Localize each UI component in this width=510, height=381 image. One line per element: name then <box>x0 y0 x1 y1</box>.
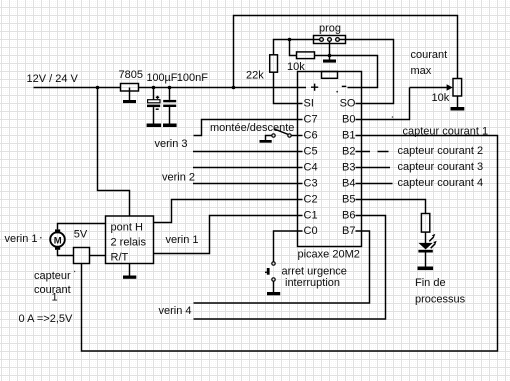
capacitor C2 100nF <box>163 88 176 124</box>
svg-text:capteur courant 1: capteur courant 1 <box>403 126 489 138</box>
node capteur courant 4 label <box>398 177 484 189</box>
node junction rail to top net <box>232 86 236 90</box>
svg-text:picaxe 20M2: picaxe 20M2 <box>298 249 360 261</box>
ground switch montée/descente <box>260 140 272 143</box>
ground pont H <box>123 264 136 279</box>
node pin - label <box>336 86 346 92</box>
ground prog pin2 <box>323 42 336 63</box>
svg-text:B2: B2 <box>342 146 355 158</box>
relay pont H 2 relais R/T <box>106 216 154 264</box>
node arret urgence label <box>282 266 347 290</box>
svg-text:capteur courant 2: capteur courant 2 <box>398 145 484 157</box>
svg-text:verin 2: verin 2 <box>162 172 195 184</box>
wire B3 <box>356 167 391 169</box>
svg-text:100nF: 100nF <box>177 72 208 84</box>
node verin 1 label mid <box>166 234 199 246</box>
wire B2 <box>356 151 389 153</box>
svg-text:capteur courant 3: capteur courant 3 <box>398 161 484 173</box>
svg-text:C3: C3 <box>304 178 318 190</box>
svg-text:Fin de: Fin de <box>415 277 446 289</box>
node pin labels left column <box>304 98 318 238</box>
svg-text:B0: B0 <box>342 114 355 126</box>
wire C2 to pont H upper <box>154 200 303 223</box>
svg-text:B5: B5 <box>342 194 355 206</box>
transducer capteur courant 1 box <box>74 248 90 264</box>
node capteur courant 2 label <box>398 145 484 157</box>
diode LED fin de processus <box>418 232 436 266</box>
wire prog pin1 to 22k <box>274 40 320 55</box>
node verin 1 label left <box>5 233 42 245</box>
svg-text:10k: 10k <box>432 92 450 104</box>
svg-text:verin 3: verin 3 <box>155 138 188 150</box>
node courant max label <box>411 49 448 77</box>
wire B1 capteur courant 1 loop <box>82 136 498 352</box>
node pin + label <box>311 84 318 91</box>
capacitor C2 100nF label <box>177 72 208 84</box>
svg-text:B7: B7 <box>342 225 355 237</box>
wire junction down to 10k left <box>290 40 297 56</box>
wire B4 <box>356 183 393 185</box>
wire motor top to pont H <box>58 224 106 230</box>
svg-text:100µF: 100µF <box>147 72 178 84</box>
svg-text:2 relais: 2 relais <box>111 237 147 249</box>
svg-text:verin 1: verin 1 <box>166 234 199 246</box>
wire B5 to LED resistor <box>356 200 426 214</box>
ground regulator 7805 <box>123 88 136 104</box>
node capteur courant 1 label <box>392 116 488 137</box>
svg-text:7805: 7805 <box>119 69 143 81</box>
svg-text:C2: C2 <box>304 194 318 206</box>
svg-text:B6: B6 <box>342 210 355 222</box>
switch arret urgence pushbutton <box>265 262 275 292</box>
svg-text:R/T: R/T <box>111 252 129 264</box>
wire C1 to pont H lower <box>154 216 303 254</box>
svg-text:B4: B4 <box>342 178 355 190</box>
wire C5 <box>193 151 303 153</box>
node junction 10k wire prog pin2 <box>328 54 332 58</box>
wire C3 <box>193 183 303 185</box>
ground capacitor 100nF <box>163 124 177 128</box>
wire wiper to pin B0 <box>356 88 410 120</box>
node Fin de processus label <box>415 277 466 306</box>
svg-text:22k: 22k <box>246 70 264 82</box>
resistor 10k serial <box>287 52 315 73</box>
wire 12/24V rail <box>34 87 307 89</box>
node 12V/24V supply label <box>27 73 79 85</box>
node junction rail to pont H <box>96 86 100 90</box>
ground potentiometer <box>451 96 465 111</box>
motor M verin 1 <box>50 229 65 249</box>
wire motor bottom to capteur <box>58 250 74 256</box>
wire rail down to pont H supply <box>98 88 130 217</box>
wire prog pin3 to SO <box>340 40 394 104</box>
svg-text:C1: C1 <box>304 210 318 222</box>
wire capteur to pont H <box>90 255 106 257</box>
wire B7 verin 4 upper <box>194 231 370 303</box>
svg-text:C7: C7 <box>304 114 318 126</box>
regulator 7805 <box>119 69 143 91</box>
wire 5V rail to potentiometer top <box>234 16 458 88</box>
node verin 2 label <box>162 172 195 184</box>
svg-text:C5: C5 <box>304 146 318 158</box>
ground arret urgence <box>267 292 280 295</box>
wire 10k right to minus pin <box>315 56 378 88</box>
svg-text:arret urgence: arret urgence <box>282 266 347 278</box>
svg-text:C6: C6 <box>304 130 318 142</box>
ground LED <box>418 267 434 271</box>
node verin 3 label <box>155 138 188 150</box>
node capteur courant 1 label left <box>34 270 75 304</box>
wire C4 <box>193 167 303 169</box>
svg-text:courant: courant <box>411 49 448 61</box>
node pin labels right column <box>340 98 356 238</box>
svg-text:interruption: interruption <box>285 277 340 289</box>
op-amp U1 picaxe 20M2 body <box>298 72 362 261</box>
svg-text:B3: B3 <box>342 162 355 174</box>
capacitor C1 100µF electrolytic <box>147 88 160 124</box>
node 5V label <box>74 229 88 241</box>
svg-text:capteur courant 4: capteur courant 4 <box>398 177 484 189</box>
svg-text:SO: SO <box>340 98 356 110</box>
node junction rail to 100µF <box>152 86 156 90</box>
node verin 4 label <box>159 305 192 317</box>
switch montée/descente SPDT <box>266 129 303 140</box>
svg-text:5V: 5V <box>74 229 88 241</box>
svg-text:pont H: pont H <box>111 222 143 234</box>
svg-text:M: M <box>54 235 62 246</box>
potentiometer 10k courant max <box>410 79 462 105</box>
svg-text:B1: B1 <box>342 130 355 142</box>
wire B6 verin 4 lower <box>194 216 386 320</box>
node junction prog wire to 10k <box>288 38 292 42</box>
node capteur courant 3 label <box>398 161 484 173</box>
svg-text:C0: C0 <box>304 225 318 237</box>
svg-text:verin 4: verin 4 <box>159 305 192 317</box>
svg-text:0 A =>2,5V: 0 A =>2,5V <box>19 313 73 325</box>
node 0A label <box>19 313 73 325</box>
svg-text:processus: processus <box>415 294 466 306</box>
capacitor C1 100µF label <box>147 72 178 84</box>
resistor 22k <box>246 55 278 82</box>
svg-text:capteur: capteur <box>34 270 71 282</box>
connector prog label <box>319 23 341 35</box>
svg-text:C4: C4 <box>304 162 318 174</box>
svg-text:SI: SI <box>304 98 314 110</box>
ground capacitor 100µF <box>147 124 162 128</box>
wire 22k bottom to SI <box>274 72 303 103</box>
node montée/descente label <box>210 122 294 134</box>
svg-text:max: max <box>411 65 432 77</box>
svg-text:1: 1 <box>52 292 58 304</box>
node junction rail to 100nF <box>168 86 172 90</box>
svg-text:prog: prog <box>319 23 341 35</box>
connector prog 3-pin <box>314 36 346 44</box>
svg-text:12V / 24 V: 12V / 24 V <box>27 73 79 85</box>
svg-text:verin 1: verin 1 <box>5 233 38 245</box>
wire C7 montée/descente <box>194 120 303 136</box>
wire C0 to pushbutton <box>274 231 303 262</box>
resistor LED series <box>421 214 429 233</box>
